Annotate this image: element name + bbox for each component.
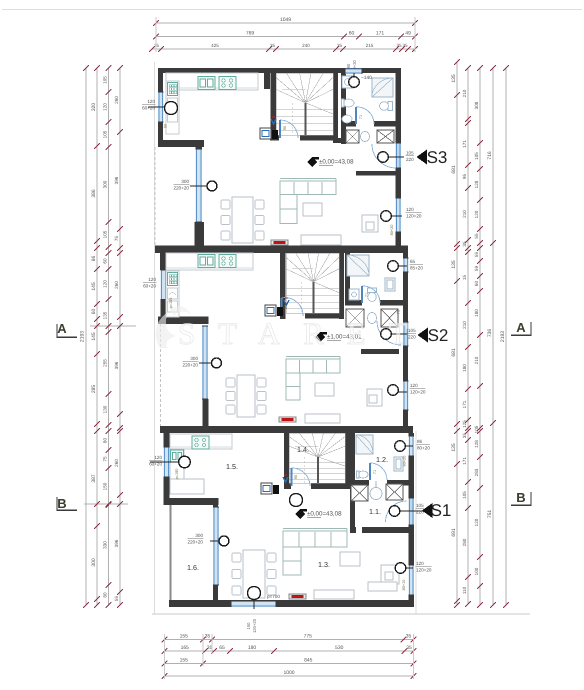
svg-text:±0,00=43,08: ±0,00=43,08 xyxy=(307,511,342,518)
dining table S3 xyxy=(232,197,253,243)
svg-text:171: 171 xyxy=(462,457,467,465)
svg-text:120: 120 xyxy=(103,103,108,111)
window S3 right 120 xyxy=(396,198,402,232)
svg-text:65: 65 xyxy=(219,645,225,651)
stairs S2 xyxy=(286,269,314,282)
svg-text:396: 396 xyxy=(114,361,119,369)
svg-text:283: 283 xyxy=(474,468,479,476)
svg-text:35: 35 xyxy=(406,645,412,651)
outer wall left upper S3 xyxy=(158,68,163,147)
svg-text:85+20: 85+20 xyxy=(410,266,423,271)
svg-text:A: A xyxy=(516,320,526,335)
svg-text:86: 86 xyxy=(417,439,423,444)
bath S2 left wall xyxy=(345,253,350,300)
slab edge line bottom xyxy=(152,613,530,615)
svg-text:105: 105 xyxy=(406,151,414,156)
kitchen stove S1 xyxy=(192,436,209,449)
svg-text:135: 135 xyxy=(451,260,457,269)
svg-text:105: 105 xyxy=(474,152,479,160)
bath S2 basin xyxy=(385,278,395,291)
entry marker S2 triangle xyxy=(418,328,429,343)
svg-text:120: 120 xyxy=(103,280,108,288)
outer wall right S3 xyxy=(396,68,402,143)
svg-text:35: 35 xyxy=(396,43,402,48)
window S1 bottom 150 xyxy=(231,601,276,607)
bath S1 left wall xyxy=(350,433,355,480)
svg-text:60: 60 xyxy=(103,258,108,264)
door band S1 entry xyxy=(409,498,415,525)
kitchen tall units S2 xyxy=(166,271,179,317)
kitchen counter S3 xyxy=(166,73,258,90)
bath S3 shower xyxy=(372,78,393,97)
bath S1 basin xyxy=(358,471,368,478)
elevation S1 xyxy=(295,509,305,519)
svg-text:125: 125 xyxy=(462,420,467,428)
svg-text:S3: S3 xyxy=(427,148,448,167)
top dim row 769/60/171/49 xyxy=(156,36,415,38)
riser S2 bath window xyxy=(398,265,407,267)
bath S1 sink cabinet xyxy=(394,457,403,471)
desk S3 xyxy=(362,215,378,232)
svg-text:260: 260 xyxy=(114,459,119,467)
svg-text:60: 60 xyxy=(91,309,97,315)
svg-text:80: 80 xyxy=(103,592,108,598)
svg-text:55: 55 xyxy=(474,233,479,239)
stair door S3 xyxy=(280,120,298,138)
window S3 terrace 300 xyxy=(196,149,203,222)
living S2 sofa xyxy=(286,359,340,373)
shaft S2 xyxy=(265,305,276,316)
svg-text:155: 155 xyxy=(180,634,189,640)
svg-text:71: 71 xyxy=(359,115,363,119)
entry marker S1 triangle xyxy=(422,503,433,518)
svg-text:60: 60 xyxy=(349,30,355,36)
tv bench S3 xyxy=(301,235,341,245)
kitchen side counter S1 xyxy=(170,449,184,490)
stair core S2 bottom wall xyxy=(280,313,282,319)
left section tick line B xyxy=(84,503,128,505)
bottom dim total 1000 xyxy=(165,675,414,677)
outer wall right S2 xyxy=(403,253,408,258)
bath S3 washer xyxy=(342,76,354,88)
terrace 1.6 thin edge xyxy=(170,505,172,600)
svg-text:35: 35 xyxy=(207,645,213,651)
svg-text:300: 300 xyxy=(103,180,108,188)
window S2 living 300 on terrace wall xyxy=(202,326,208,399)
svg-text:751: 751 xyxy=(487,510,493,519)
roof overhang line right xyxy=(415,431,417,614)
top dim extension lines xyxy=(155,17,157,52)
svg-text:220+20: 220+20 xyxy=(188,540,204,545)
svg-text:135: 135 xyxy=(103,311,108,319)
bath S2 toilet xyxy=(368,288,377,293)
svg-text:p=105: p=105 xyxy=(169,298,173,309)
svg-text:15: 15 xyxy=(462,275,467,281)
svg-text:396: 396 xyxy=(114,539,119,547)
svg-text:210: 210 xyxy=(474,356,479,364)
bath S1 door xyxy=(370,463,387,480)
svg-text:105: 105 xyxy=(103,230,108,238)
svg-text:220: 220 xyxy=(406,157,414,162)
svg-text:145: 145 xyxy=(91,332,97,341)
svg-text:S2: S2 xyxy=(428,326,449,345)
svg-text:120+20: 120+20 xyxy=(416,568,432,573)
svg-text:35: 35 xyxy=(402,43,408,48)
entry marker S3 triangle xyxy=(417,150,428,165)
kitchen sink S3 xyxy=(198,77,215,90)
svg-text:180: 180 xyxy=(462,364,467,372)
tv bench S2 xyxy=(305,414,340,423)
svg-text:1.4.: 1.4. xyxy=(297,445,309,454)
svg-text:49: 49 xyxy=(405,30,411,36)
svg-text:736: 736 xyxy=(487,329,493,338)
svg-text:60+20: 60+20 xyxy=(142,106,155,111)
svg-text:A: A xyxy=(57,321,67,336)
terrace S2 dashed edge xyxy=(160,324,162,426)
top dim total 1049 xyxy=(156,22,415,24)
outer wall top xyxy=(158,68,401,73)
svg-text:260: 260 xyxy=(114,96,119,104)
svg-text:120+20: 120+20 xyxy=(410,390,426,395)
svg-text:1.2.: 1.2. xyxy=(376,455,388,464)
svg-text:135: 135 xyxy=(451,74,457,83)
stair riser S1 xyxy=(290,494,303,507)
stair core S3 right wall xyxy=(333,73,338,140)
bath S3 bottom wall xyxy=(341,121,356,127)
right dim chain 308/105/128/120/... xyxy=(479,68,481,605)
svg-text:120: 120 xyxy=(154,455,162,460)
entry door S2 xyxy=(377,321,401,345)
shaft S3 xyxy=(260,128,271,139)
stair door S2 xyxy=(282,298,304,316)
svg-text:285: 285 xyxy=(91,385,97,394)
window S2 kitchen left 120 xyxy=(161,270,167,300)
bottom dim row 155/845 xyxy=(165,663,414,665)
svg-text:120: 120 xyxy=(474,518,479,526)
kitchen bottom counter S1 xyxy=(170,479,204,494)
kitchen sink S1 xyxy=(171,450,184,462)
right dim chain 716/736/751 xyxy=(492,68,494,605)
hall S1 riser oval xyxy=(370,488,382,500)
svg-text:59: 59 xyxy=(474,266,479,272)
hall S1 bottom wall xyxy=(350,527,356,533)
bottom dim row 165/35/65/180/530/35 xyxy=(165,650,414,652)
divider wall S3/S2 xyxy=(155,246,408,254)
svg-text:300: 300 xyxy=(195,533,203,538)
svg-text:90: 90 xyxy=(346,63,351,68)
kitchen stove S3 xyxy=(219,77,236,90)
roof overhang line left xyxy=(154,62,156,614)
svg-text:387: 387 xyxy=(91,474,97,483)
svg-text:105: 105 xyxy=(103,76,108,84)
svg-text:120: 120 xyxy=(406,207,414,212)
right dim chain 135/681 xyxy=(456,62,458,605)
svg-text:128: 128 xyxy=(474,180,479,188)
riser S3 entry door xyxy=(389,156,404,158)
desk S2 xyxy=(367,389,382,406)
stair core S1 left wall xyxy=(284,433,289,489)
kitchen stove S2 xyxy=(219,255,236,268)
kitchen stub wall S3 xyxy=(264,73,270,89)
svg-text:300: 300 xyxy=(190,356,198,361)
left dim chain 105/120/105/300/... xyxy=(108,68,110,605)
svg-text:100: 100 xyxy=(474,567,479,575)
svg-text:35: 35 xyxy=(154,43,160,48)
svg-text:681: 681 xyxy=(451,348,457,357)
svg-text:220+20: 220+20 xyxy=(174,186,190,191)
coffee table S2 xyxy=(315,383,334,396)
riser S1 entry door xyxy=(400,510,423,512)
svg-text:1049: 1049 xyxy=(280,17,291,23)
right dim chain 210/15/171/95/210/35 xyxy=(467,68,469,604)
left section tick line A xyxy=(90,325,136,327)
divider wall S2/S1 xyxy=(160,426,413,433)
tv S3 xyxy=(271,240,288,245)
svg-text:396: 396 xyxy=(114,176,119,184)
svg-text:1000: 1000 xyxy=(283,670,294,676)
svg-text:716: 716 xyxy=(487,151,493,160)
vent mark S3 xyxy=(271,119,276,124)
svg-text:240: 240 xyxy=(302,43,310,48)
svg-text:180: 180 xyxy=(248,645,257,651)
left dim chain 260/396 pattern xyxy=(119,68,121,605)
svg-text:260: 260 xyxy=(114,281,119,289)
svg-text:86: 86 xyxy=(91,256,97,262)
entry door S1 xyxy=(386,501,407,522)
svg-text:255: 255 xyxy=(103,359,108,367)
elevation S3 xyxy=(307,157,317,167)
hall S1 left wall xyxy=(350,480,355,533)
svg-text:330: 330 xyxy=(103,541,108,549)
svg-text:1.6.: 1.6. xyxy=(187,563,199,572)
svg-text:681: 681 xyxy=(451,165,457,174)
small table S1 bottom right xyxy=(368,582,397,591)
svg-text:210: 210 xyxy=(462,210,467,218)
stair core S2 left wall xyxy=(280,253,286,319)
svg-text:300: 300 xyxy=(91,558,97,567)
svg-text:2193: 2193 xyxy=(500,331,506,342)
svg-text:75: 75 xyxy=(103,456,108,462)
svg-text:90: 90 xyxy=(294,475,298,479)
svg-text:55: 55 xyxy=(114,596,119,602)
svg-text:180: 180 xyxy=(474,309,479,317)
stair core S1 bottom wall xyxy=(284,483,291,489)
living S3 sofa xyxy=(280,181,336,195)
stair core S3 bottom wall xyxy=(270,135,279,141)
svg-text:105: 105 xyxy=(474,425,479,433)
bottom dim row 155/35/775/35 xyxy=(165,639,414,641)
sheet border line top xyxy=(2,9,582,11)
svg-text:60: 60 xyxy=(474,281,479,287)
svg-text:95: 95 xyxy=(462,174,467,180)
svg-text:STARET: STARET xyxy=(178,316,431,351)
svg-text:105: 105 xyxy=(416,503,424,508)
svg-text:150: 150 xyxy=(246,622,251,630)
entry S3 wall xyxy=(356,171,396,176)
kitchen sink S2 xyxy=(198,255,215,268)
S1 terrace wall vertical x213 xyxy=(213,505,218,507)
bath S3 bidet xyxy=(342,115,352,123)
svg-text:71: 71 xyxy=(365,293,369,297)
svg-text:425: 425 xyxy=(211,43,219,48)
svg-text:105: 105 xyxy=(462,491,467,499)
tv bench S1 xyxy=(314,590,354,599)
bath S2 shower xyxy=(347,255,369,276)
svg-text:120: 120 xyxy=(410,383,418,388)
window S1 terrace 300 xyxy=(213,507,219,585)
svg-text:145: 145 xyxy=(91,282,97,291)
svg-text:210: 210 xyxy=(462,321,467,329)
svg-text:128: 128 xyxy=(474,440,479,448)
elevation S2 xyxy=(315,332,325,342)
top dim row 35/425/35/240/35/215/... xyxy=(152,48,415,50)
svg-text:386: 386 xyxy=(91,189,97,198)
hall S1 wardrobe xyxy=(351,485,368,501)
svg-text:120: 120 xyxy=(147,99,155,104)
svg-text:75: 75 xyxy=(114,236,119,242)
stair core S3 left wall xyxy=(271,73,277,140)
entry S2 wardrobe xyxy=(346,309,364,327)
vent mark S1 xyxy=(283,477,288,482)
svg-text:35: 35 xyxy=(270,43,276,48)
riser S2 entry door xyxy=(392,333,407,335)
outer wall left S1 xyxy=(164,433,170,447)
svg-text:171: 171 xyxy=(376,30,385,36)
S1 terrace wall horizontal xyxy=(164,498,219,505)
riser S1 terrace window xyxy=(210,540,219,542)
window S3 kitchen left 120 xyxy=(158,92,164,122)
kitchen counter S1 xyxy=(170,434,232,449)
svg-text:120: 120 xyxy=(148,277,156,282)
svg-text:300: 300 xyxy=(181,179,189,184)
vent mark S2 xyxy=(284,300,289,305)
svg-text:130: 130 xyxy=(103,405,108,413)
stair core S2 right wall xyxy=(339,253,344,319)
svg-text:60+20: 60+20 xyxy=(143,284,156,289)
svg-text:530: 530 xyxy=(335,645,344,651)
svg-text:691: 691 xyxy=(451,528,457,537)
svg-text:80: 80 xyxy=(103,438,108,444)
svg-text:71: 71 xyxy=(373,470,377,474)
riser S3 right window xyxy=(392,215,402,217)
svg-text:60+20: 60+20 xyxy=(149,462,162,467)
entry S3 wardrobe xyxy=(346,130,359,143)
svg-text:845: 845 xyxy=(304,658,313,664)
svg-text:35: 35 xyxy=(406,634,412,640)
riser S2 right window xyxy=(398,391,407,393)
desk S1 xyxy=(381,565,399,584)
bath S2 door xyxy=(362,286,380,303)
svg-text:75: 75 xyxy=(397,310,401,314)
svg-text:171: 171 xyxy=(462,400,467,408)
svg-text:35: 35 xyxy=(337,43,343,48)
svg-text:p=700: p=700 xyxy=(267,594,280,599)
kitchen tall units S3 xyxy=(166,81,179,134)
svg-text:55: 55 xyxy=(474,252,479,258)
entry S2 wall xyxy=(361,349,399,354)
entry S3 side wall xyxy=(333,138,346,143)
svg-text:150: 150 xyxy=(103,482,108,490)
svg-text:1.3.: 1.3. xyxy=(318,560,330,569)
svg-text:35: 35 xyxy=(462,241,467,247)
bath S2 washer xyxy=(349,289,359,300)
living S1 sofa xyxy=(283,531,347,547)
outer wall right S1 xyxy=(409,433,415,436)
terrace S3 thin edge xyxy=(154,147,156,245)
left dim total 2193 xyxy=(85,68,87,605)
window S1 bath right 60 xyxy=(409,436,415,456)
stair core S1 right wall xyxy=(345,433,350,483)
stairs S1 xyxy=(289,446,318,457)
svg-text:320: 320 xyxy=(91,103,97,112)
riser S1 bath window xyxy=(405,445,413,447)
svg-text:~140: ~140 xyxy=(361,75,372,81)
window S2 right 120 xyxy=(403,381,409,410)
svg-text:80+20: 80+20 xyxy=(390,225,394,236)
svg-text:1.1.: 1.1. xyxy=(369,507,381,516)
bath S1 bottom wall xyxy=(350,480,369,486)
bath S3 left wall xyxy=(341,73,346,144)
right dim total 2193 xyxy=(505,68,507,605)
svg-text:120+20: 120+20 xyxy=(406,214,422,219)
window S1 right 120 xyxy=(409,565,415,595)
svg-text:155: 155 xyxy=(180,658,189,664)
window S1 kitchen left 120 xyxy=(164,447,170,477)
bath S3 toilet xyxy=(388,102,393,111)
dining table S2 xyxy=(237,375,255,417)
svg-text:165: 165 xyxy=(181,645,190,651)
terrace wall S2 vertical x202 xyxy=(203,399,209,426)
svg-text:S1: S1 xyxy=(431,501,452,520)
outer wall bottom xyxy=(169,600,413,607)
svg-text:215: 215 xyxy=(366,43,374,48)
svg-text:p=190: p=190 xyxy=(175,469,179,480)
door band S3 entry xyxy=(396,143,402,168)
svg-text:210: 210 xyxy=(462,89,467,97)
svg-text:35: 35 xyxy=(205,634,211,640)
terrace wall S3 horizontal xyxy=(158,140,204,147)
svg-text:105: 105 xyxy=(103,130,108,138)
entry S3 oval xyxy=(361,132,370,142)
stairs S3 xyxy=(276,89,306,102)
svg-text:80+20: 80+20 xyxy=(417,446,430,451)
svg-text:120+20: 120+20 xyxy=(252,618,257,633)
svg-text:±0,00=43,08: ±0,00=43,08 xyxy=(319,159,354,166)
svg-text:280: 280 xyxy=(462,538,467,546)
bath S1 shower xyxy=(356,435,373,454)
svg-text:120: 120 xyxy=(474,210,479,218)
coffee table S3 xyxy=(303,203,322,216)
kitchen counter S2 xyxy=(166,253,253,270)
outer wall left S2 xyxy=(160,247,166,270)
entry door S3 xyxy=(372,144,396,168)
svg-text:769: 769 xyxy=(246,30,255,36)
bath S2 bottom wall xyxy=(345,300,362,306)
riser window S3 kitchen xyxy=(148,106,166,108)
bath S3 basin xyxy=(343,99,354,107)
svg-text:B: B xyxy=(57,496,66,511)
riser S1 bottom window xyxy=(248,587,261,600)
svg-text:110: 110 xyxy=(462,586,467,594)
svg-text:1.5.: 1.5. xyxy=(226,462,238,471)
svg-text:171: 171 xyxy=(462,140,467,148)
tv S2 xyxy=(279,417,296,422)
svg-text:220+20: 220+20 xyxy=(183,363,199,368)
svg-text:120: 120 xyxy=(416,561,424,566)
svg-text:775: 775 xyxy=(304,634,313,640)
door band S2 entry xyxy=(403,322,409,346)
riser S3 terrace xyxy=(190,185,208,187)
